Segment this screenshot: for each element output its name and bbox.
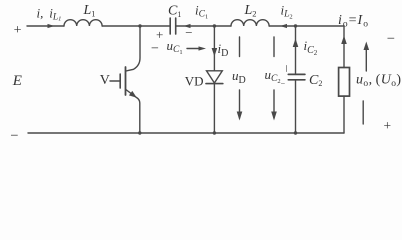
svg-text:+: +	[14, 23, 22, 38]
label C2	[309, 73, 322, 88]
wire output right drop with i_o arrow	[341, 26, 347, 68]
label C1	[168, 4, 181, 19]
node at C2 branch (top)	[294, 24, 297, 27]
svg-text:−: −	[387, 31, 395, 47]
svg-text:uC1: uC1	[167, 38, 183, 56]
load resistor box	[339, 68, 350, 97]
svg-text:i, iL1: i, iL1	[37, 6, 62, 23]
svg-text:V: V	[100, 73, 110, 88]
diode VD cathode wire	[213, 84, 215, 133]
svg-text:uo, (Uo): uo, (Uo)	[356, 73, 401, 90]
capacitor C2 top wire with i_C2 arrow	[293, 26, 299, 74]
svg-text:E: E	[12, 73, 22, 89]
label minus (output top right)	[387, 31, 395, 47]
node diode cathode bottom	[213, 131, 216, 134]
transistor V gate bar	[119, 74, 121, 88]
label u_C1	[167, 38, 183, 56]
label minus (input bottom left)	[10, 128, 18, 144]
label u_D	[232, 68, 246, 86]
svg-text:io=Io: io=Io	[338, 13, 369, 30]
svg-text:L1: L1	[83, 3, 96, 18]
svg-text:iC2: iC2	[304, 38, 318, 57]
label + (input positive)	[14, 23, 22, 38]
wire bottom rail	[28, 132, 344, 134]
capacitor C1	[170, 18, 176, 34]
transistor V gate lead	[110, 80, 120, 82]
svg-text:C2: C2	[309, 73, 322, 88]
svg-text:+: +	[156, 27, 163, 42]
transistor V (IGBT) collector wire	[126, 26, 140, 71]
label + (output bottom right)	[384, 118, 392, 133]
node at diode anode (top)	[213, 24, 216, 27]
svg-text:L2: L2	[244, 3, 257, 18]
wire from L1 to capacitor C1	[102, 25, 170, 27]
inductor L1	[64, 20, 102, 26]
voltage arrow u_C1 (right)	[187, 46, 206, 50]
label i_D	[218, 41, 229, 59]
plus tick near C2 plate	[286, 66, 288, 72]
label i_C1	[195, 3, 208, 21]
label i_C2	[304, 38, 318, 57]
svg-text:+: +	[384, 118, 392, 133]
svg-text:C1: C1	[168, 4, 181, 19]
label L1	[83, 3, 96, 18]
transistor V emitter with arrow	[126, 90, 140, 134]
label E (source)	[12, 73, 22, 89]
capacitor C2 plates	[288, 74, 305, 79]
voltage arrow u_D (down)	[237, 37, 243, 121]
svg-text:iL2: iL2	[281, 3, 293, 21]
label i, i_L1	[37, 6, 62, 23]
diode VD triangle	[207, 71, 223, 83]
svg-text:iD: iD	[218, 41, 229, 59]
label + near C1 left plate	[156, 27, 163, 42]
wire load bottom to rail	[343, 96, 345, 133]
node emitter bottom	[138, 131, 141, 134]
label minus before u_C1	[151, 42, 159, 57]
capacitor C2 bottom wire	[295, 80, 297, 133]
label VD (diode)	[185, 74, 204, 89]
diode VD cathode bar	[206, 83, 223, 85]
inductor L2	[231, 20, 269, 26]
voltage arrow u_o (up)	[363, 42, 369, 125]
svg-text:uC2−: uC2−	[265, 67, 286, 88]
node at transistor collector (top)	[138, 24, 141, 27]
wire from C1 to L2 with i_C1 arrow	[176, 24, 231, 28]
label u_C2 with minus	[265, 67, 286, 88]
diode VD anode wire with i_D arrow	[212, 26, 218, 71]
voltage arrow u_C2 (down)	[271, 37, 277, 121]
svg-text:−: −	[151, 42, 159, 57]
label i_L2	[281, 3, 293, 21]
label L2	[244, 3, 257, 18]
label u_o (U_o)	[356, 73, 401, 90]
svg-text:iC1: iC1	[195, 3, 208, 21]
wire top rail input segment with current arrow	[27, 24, 64, 28]
svg-text:VD: VD	[185, 74, 204, 89]
wire from L2 to output corner with i_L2 arrow	[269, 24, 344, 28]
svg-text:−: −	[10, 128, 18, 144]
svg-text:−: −	[185, 25, 192, 40]
label V (transistor)	[100, 73, 110, 88]
label i_o = I_o	[338, 13, 369, 30]
transistor V main bar	[125, 67, 127, 95]
svg-text:uD: uD	[232, 68, 246, 86]
label minus near C1 right plate	[185, 25, 192, 40]
node C2 bottom	[294, 131, 297, 134]
